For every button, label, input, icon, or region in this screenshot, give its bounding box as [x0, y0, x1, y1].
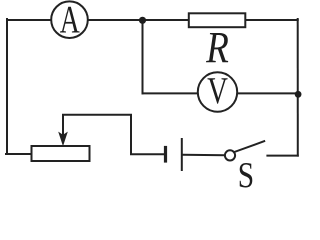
label S (switch): [240, 163, 253, 188]
switch S circle: [225, 150, 235, 160]
resistor R box: [189, 13, 246, 27]
wire: right vertical: [297, 19, 299, 156]
label R (resistor): [206, 33, 228, 62]
wire: top-left horizontal (corner to ammeter): [7, 19, 51, 21]
battery short plate (negative): [164, 148, 167, 162]
rheostat box: [32, 146, 90, 161]
wire: voltmeter to right junction: [237, 92, 298, 94]
label A (ammeter): [60, 7, 80, 33]
junction node (top, voltmeter tap): [139, 17, 146, 24]
label V (voltmeter): [208, 78, 228, 103]
rheostat slider arrowhead: [58, 132, 68, 147]
switch S lever: [235, 141, 265, 152]
ammeter A1 circle: [51, 1, 88, 38]
wire: resistor to top-right corner: [245, 19, 297, 21]
wire: switch to bottom-right corner: [267, 155, 297, 157]
wire: left vertical: [6, 19, 8, 154]
wire: slider arm up-right-down to battery: [63, 115, 164, 154]
wire: battery to switch: [183, 154, 225, 156]
wire: bottom-left (left wire to rheostat): [6, 153, 32, 155]
junction node (right, voltmeter tap): [295, 91, 302, 98]
wire: voltmeter branch left horizontal: [143, 92, 198, 94]
battery long plate (positive): [181, 139, 183, 170]
voltmeter V1 circle: [198, 72, 237, 111]
wire: ammeter to resistor (top): [88, 19, 189, 21]
wire: voltmeter branch vertical drop: [142, 20, 144, 93]
